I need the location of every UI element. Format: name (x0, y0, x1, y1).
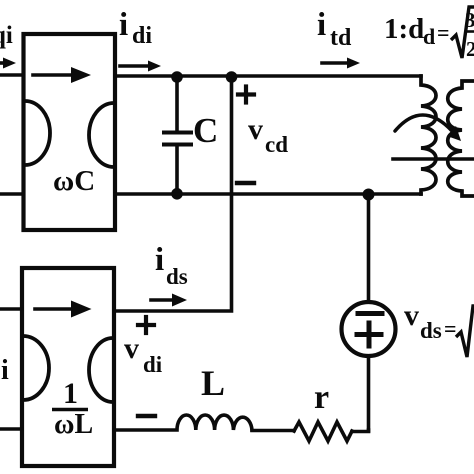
svg-text:1:d: 1:d (384, 13, 424, 45)
svg-text:v: v (404, 299, 419, 332)
source V1 (v_ds) (342, 302, 396, 356)
node: cap bottom (171, 188, 183, 200)
plus sign v_di (138, 323, 154, 327)
svg-text:L: L (201, 363, 225, 403)
wire: mid rail (115, 192, 421, 196)
node: vds branch (363, 189, 375, 201)
svg-text:qi: qi (0, 22, 13, 49)
svg-text:1: 1 (63, 377, 78, 410)
transformer T1 primary winding (421, 76, 436, 194)
wire: below source (367, 356, 371, 431)
wire: ids vertical + horizontal to bottom box (114, 76, 232, 311)
svg-text:d: d (423, 24, 435, 49)
two-port block U2 (1/wL) (22, 268, 114, 466)
arrow i_di (120, 64, 149, 68)
node: cap top (171, 71, 183, 83)
svg-text:ωL: ωL (54, 409, 93, 440)
inductor L (114, 415, 252, 430)
wire between L and r (252, 429, 294, 433)
svg-text:r: r (314, 379, 329, 416)
transformer T1 secondary winding (448, 81, 474, 196)
resistor r (294, 422, 352, 441)
minus sign v_di (138, 414, 155, 418)
svg-text:2: 2 (466, 37, 474, 61)
svg-text:v: v (248, 113, 263, 146)
svg-text:di: di (132, 23, 152, 49)
arrow inside U2 (35, 307, 73, 311)
wire: bottom right corner (352, 430, 369, 432)
svg-text:di: di (143, 352, 163, 377)
plus sign v_cd (238, 92, 254, 96)
wire: top-left input (0, 73, 23, 77)
arrow i_td (322, 61, 348, 65)
left arc U2 (23, 336, 49, 400)
svg-text:cd: cd (265, 132, 288, 157)
wire: bottom box left stub top (0, 307, 22, 311)
radical v_ds (456, 306, 474, 357)
svg-text:ds: ds (166, 264, 188, 289)
arrow i_qi (cut at left edge) (0, 61, 5, 65)
svg-text:3: 3 (465, 8, 474, 32)
minus sign v_cd (237, 181, 254, 185)
minus inside source (358, 311, 382, 316)
svg-text:=: = (437, 20, 450, 45)
svg-text:i: i (1, 355, 9, 386)
wire: top rail (115, 74, 421, 78)
wire: bottom box left stub bottom (0, 427, 22, 431)
arrow inside U1 (33, 73, 74, 77)
svg-text:td: td (330, 25, 352, 51)
right arc U2 (89, 338, 113, 402)
wire: top box left-bottom stub (0, 192, 23, 196)
svg-text:i: i (317, 7, 326, 43)
plus inside source (357, 332, 381, 337)
svg-text:ds: ds (420, 318, 442, 343)
svg-text:ωC: ωC (53, 165, 95, 197)
left arc U1 (25, 101, 50, 165)
svg-text:C: C (193, 111, 218, 150)
arrow i_ds (151, 298, 173, 302)
radical sqrt(3/2) top right (451, 7, 474, 58)
wire: horizontal through transformer (393, 157, 474, 161)
variable-ratio arrow across T1 (395, 115, 452, 131)
right arc U1 (89, 103, 114, 167)
svg-text:i: i (119, 7, 128, 43)
node: vcd branch top (226, 71, 238, 83)
svg-text:=: = (444, 316, 457, 341)
capacitor C (175, 77, 179, 130)
svg-text:i: i (155, 242, 164, 278)
svg-text:v: v (124, 332, 139, 365)
two-port block U1 (wC) (24, 34, 116, 230)
wire: vds branch down (367, 194, 371, 301)
